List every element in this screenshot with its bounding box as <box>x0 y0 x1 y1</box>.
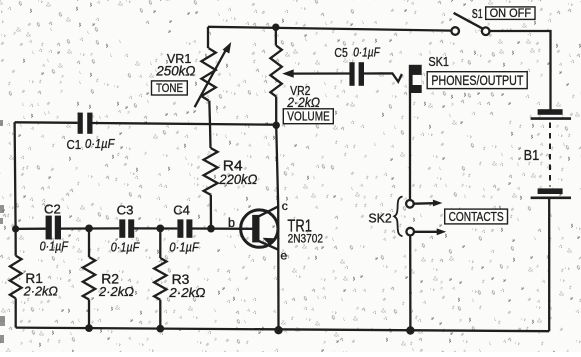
svg-text:2·2kΩ: 2·2kΩ <box>98 284 134 299</box>
node ladder left <box>12 225 19 232</box>
svg-text:SK2: SK2 <box>368 210 391 225</box>
wire SK2 down to bottom rail <box>409 236 411 331</box>
svg-text:2·2kΩ: 2·2kΩ <box>286 95 320 110</box>
node R2 bottom <box>85 324 93 332</box>
wire left rail <box>15 122 16 255</box>
battery dashed link <box>549 123 551 187</box>
wire R2 column <box>88 228 90 257</box>
wire R4 column top <box>209 124 212 148</box>
node R3 bottom <box>156 325 164 333</box>
resistor R2 zigzag <box>83 257 95 300</box>
label box PHONES/OUTPUT <box>427 72 527 89</box>
svg-text:e: e <box>280 249 287 263</box>
capacitor C5 plates <box>349 62 354 86</box>
resistor R1 zigzag <box>10 256 22 299</box>
capacitor C2 plates <box>46 216 52 240</box>
wire R2 bottom <box>88 300 90 329</box>
SK2 brace <box>394 197 402 237</box>
transistor TR1 <box>241 206 279 249</box>
svg-text:0·1µF: 0·1µF <box>169 239 199 254</box>
wire VR1 column top <box>207 27 209 48</box>
SK2 arrow 2 <box>414 228 446 235</box>
svg-text:250kΩ: 250kΩ <box>155 64 195 79</box>
svg-text:0·1µF: 0·1µF <box>353 46 381 60</box>
svg-text:CONTACTS: CONTACTS <box>449 210 504 224</box>
wire C5 to SK1 with spring contact V <box>364 73 402 81</box>
label box TONE <box>152 81 188 95</box>
svg-text:0·1µF: 0·1µF <box>111 239 140 254</box>
battery B1 cell 2 <box>531 188 571 197</box>
capacitor C1 plates <box>78 113 83 134</box>
wire top rail right (S1 to battery) <box>490 31 551 110</box>
resistor R3 zigzag <box>154 258 166 300</box>
wire R3 bottom <box>159 300 161 329</box>
node SK2 bottom <box>406 326 414 334</box>
svg-text:PHONES/OUTPUT: PHONES/OUTPUT <box>431 73 523 88</box>
svg-text:C1: C1 <box>67 137 82 152</box>
wire top rail left (VR1 top to S1) <box>208 27 451 31</box>
VR1 wiper arrow <box>195 48 228 108</box>
label box CONTACTS <box>445 209 508 224</box>
potentiometer VR2 zigzag <box>270 46 281 97</box>
wire RC ladder rail <box>16 227 253 230</box>
resistor R4 zigzag <box>204 148 218 195</box>
wire VR2 column top <box>275 27 277 45</box>
wire bottom rail <box>16 328 550 332</box>
svg-text:0·1µF: 0·1µF <box>85 136 115 151</box>
svg-text:TONE: TONE <box>156 81 183 95</box>
switch S1 <box>451 13 489 35</box>
capacitor C4 plates <box>177 219 183 237</box>
node emitter bottom <box>274 326 282 334</box>
wire VR2 bottom to volume node <box>275 97 277 126</box>
label box ON OFF <box>486 6 535 20</box>
socket SK2 contact 1 <box>406 200 414 208</box>
wire R4 bottom <box>210 195 212 229</box>
node C2/C3 junction <box>85 225 93 233</box>
svg-text:S1: S1 <box>472 6 483 21</box>
potentiometer VR1 zigzag <box>201 48 215 100</box>
svg-text:b: b <box>228 216 235 230</box>
svg-text:C3: C3 <box>117 203 134 218</box>
svg-text:2·2kΩ: 2·2kΩ <box>23 283 58 298</box>
svg-text:C2: C2 <box>44 202 61 217</box>
svg-text:220kΩ: 220kΩ <box>218 171 257 187</box>
wire VR1 bottom to C1 rail <box>208 101 211 125</box>
jack socket SK1 <box>409 65 422 93</box>
svg-text:c: c <box>282 199 288 213</box>
wire main vertical (collector/emitter rail) <box>276 125 278 330</box>
node base junction R4 <box>207 225 215 233</box>
svg-text:0·1µF: 0·1µF <box>40 239 69 254</box>
wire right rail bottom <box>548 198 550 331</box>
VR2 wiper arrow (from C5 wire) <box>292 72 350 74</box>
wire R3 column <box>159 228 161 258</box>
node top of VR2 column <box>272 24 279 31</box>
wire C1 rail <box>15 122 277 124</box>
socket SK2 contact 2 <box>406 228 414 236</box>
capacitor C3 plates <box>119 219 125 237</box>
svg-text:B1: B1 <box>524 147 540 164</box>
node volume junction <box>273 122 280 129</box>
svg-text:ON OFF: ON OFF <box>490 6 531 20</box>
battery B1 cell 1 <box>531 109 571 118</box>
svg-text:2N3702: 2N3702 <box>288 232 324 246</box>
svg-text:SK1: SK1 <box>428 54 449 69</box>
SK2 arrow 1 <box>414 200 442 207</box>
wire SK1 to SK2 <box>409 93 411 200</box>
svg-text:2·2kΩ: 2·2kΩ <box>168 285 205 300</box>
svg-text:C5: C5 <box>334 45 347 60</box>
label box VOLUME <box>283 109 333 124</box>
svg-text:VOLUME: VOLUME <box>287 110 330 124</box>
svg-text:C4: C4 <box>173 203 190 218</box>
node C3/C4 junction <box>156 225 164 233</box>
wire left rail bottom <box>15 298 17 327</box>
